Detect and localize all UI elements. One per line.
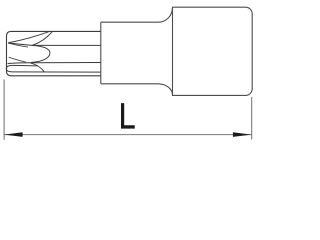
collar bottom line with fillet into socket face — [101, 84, 173, 95]
collar face (bit emerges here) — [100, 22, 102, 84]
flute slot (rounded left cap, bottom line runs to collar face) — [6, 65, 101, 72]
tip curve from V1 sweeping to top edge — [8, 32, 49, 43]
hex flat line lower (to collar face) — [8, 63, 101, 64]
torx lobe lens upper arc — [32, 45, 50, 53]
extension line left — [3, 80, 5, 140]
collar top line with fillet into socket face — [101, 8, 173, 22]
arrowhead left — [4, 132, 22, 137]
bit body outline (torx bit, rounded rect) — [7, 31, 102, 75]
tip wedge line V3 — [9, 57, 26, 62]
dimension line — [4, 134, 251, 136]
hex flat line upper (from tip vertex V1 to collar face) — [8, 43, 101, 46]
dimension label L — [121, 103, 135, 129]
socket body — [173, 7, 253, 95]
lobe curve from V4 down to flute slot — [30, 63, 44, 72]
tip curve from V2 sweeping to top edge — [32, 32, 52, 46]
arrowhead right — [233, 132, 251, 137]
torx lobe lens lower arc — [31, 53, 50, 63]
extension line right — [251, 97, 253, 140]
tip flute sliver line below V1 — [8, 43, 28, 47]
